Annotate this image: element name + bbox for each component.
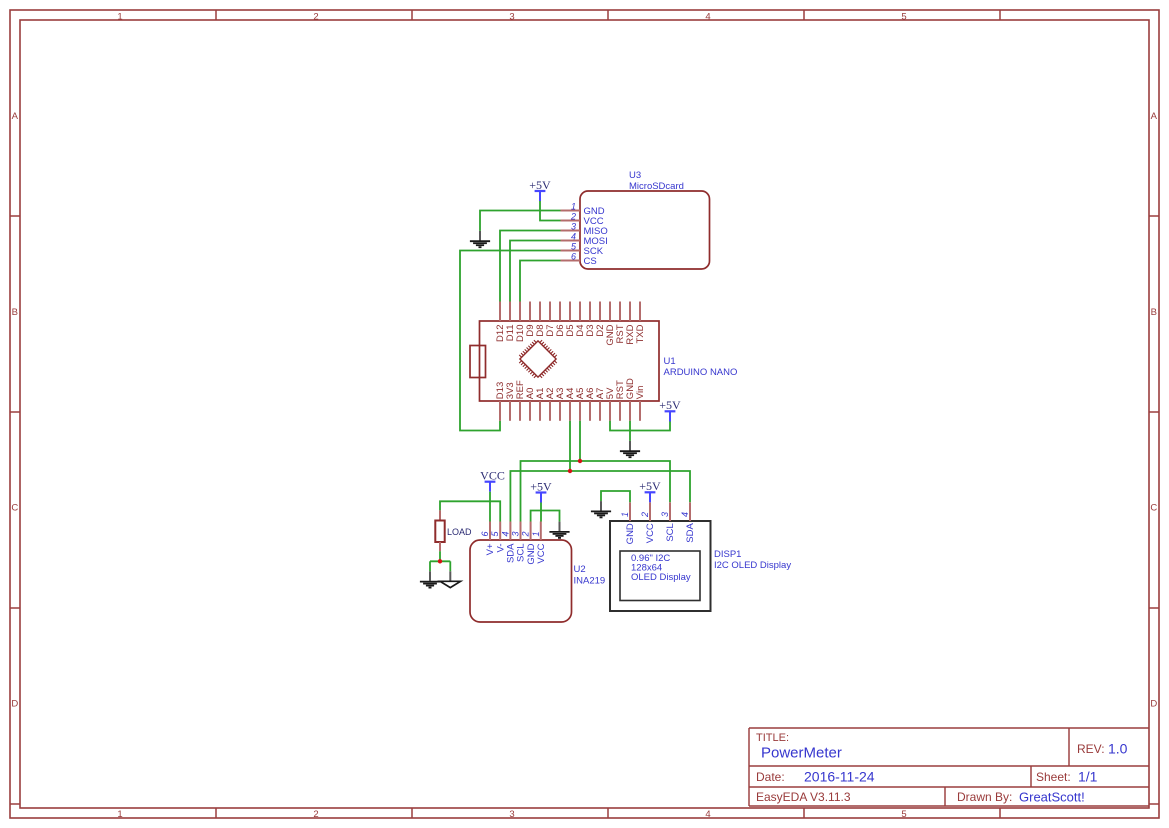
svg-text:3: 3 <box>511 531 521 536</box>
svg-text:VCC: VCC <box>536 543 547 563</box>
svg-text:VCC: VCC <box>480 469 505 483</box>
svg-text:EasyEDA V3.11.3: EasyEDA V3.11.3 <box>756 790 851 804</box>
svg-text:3: 3 <box>660 512 670 517</box>
svg-text:Drawn By:: Drawn By: <box>957 790 1012 804</box>
svg-text:2: 2 <box>640 512 650 518</box>
svg-text:6: 6 <box>480 531 490 536</box>
svg-text:4: 4 <box>571 231 576 241</box>
svg-text:PowerMeter: PowerMeter <box>761 745 842 762</box>
svg-text:U1: U1 <box>664 356 676 367</box>
svg-text:U3: U3 <box>629 170 641 181</box>
svg-text:CS: CS <box>584 256 597 267</box>
svg-text:Date:: Date: <box>756 770 785 784</box>
svg-text:I2C OLED Display: I2C OLED Display <box>714 560 791 571</box>
svg-text:TXD: TXD <box>635 324 646 343</box>
svg-text:C: C <box>11 503 18 514</box>
svg-text:4: 4 <box>680 512 690 517</box>
svg-text:TITLE:: TITLE: <box>756 732 789 744</box>
svg-text:1: 1 <box>571 201 576 211</box>
svg-text:1: 1 <box>117 11 122 22</box>
svg-text:1.0: 1.0 <box>1108 741 1128 757</box>
svg-text:2016-11-24: 2016-11-24 <box>804 769 875 785</box>
svg-text:4: 4 <box>705 809 710 820</box>
svg-text:B: B <box>1151 307 1157 318</box>
svg-text:D: D <box>11 699 18 710</box>
svg-text:+5V: +5V <box>529 178 551 192</box>
svg-text:DISP1: DISP1 <box>714 549 741 560</box>
svg-text:1: 1 <box>620 512 630 517</box>
svg-text:INA219: INA219 <box>574 576 606 587</box>
svg-text:Vin: Vin <box>635 386 646 400</box>
svg-text:D: D <box>1150 699 1157 710</box>
svg-text:MicroSDcard: MicroSDcard <box>629 181 684 192</box>
svg-text:C: C <box>1150 503 1157 514</box>
svg-text:ARDUINO NANO: ARDUINO NANO <box>664 367 738 378</box>
svg-text:5: 5 <box>901 809 906 820</box>
svg-text:+5V: +5V <box>639 479 661 493</box>
svg-text:+5V: +5V <box>659 398 681 412</box>
svg-text:SCL: SCL <box>665 523 676 541</box>
svg-text:A: A <box>12 111 19 122</box>
svg-text:B: B <box>12 307 18 318</box>
svg-text:3: 3 <box>509 809 514 820</box>
svg-text:1: 1 <box>531 531 541 536</box>
svg-text:+5V: +5V <box>530 479 552 493</box>
svg-text:OLED Display: OLED Display <box>631 572 691 583</box>
svg-text:2: 2 <box>521 531 531 537</box>
svg-text:4: 4 <box>500 531 510 536</box>
svg-text:2: 2 <box>313 11 318 22</box>
svg-text:1: 1 <box>117 809 122 820</box>
svg-text:VCC: VCC <box>645 523 656 543</box>
svg-text:U2: U2 <box>574 564 586 575</box>
svg-text:2: 2 <box>570 211 576 221</box>
svg-text:Sheet:: Sheet: <box>1036 770 1071 784</box>
svg-text:GND: GND <box>625 523 636 544</box>
svg-text:A: A <box>1151 111 1158 122</box>
svg-text:6: 6 <box>571 251 576 261</box>
svg-text:REV:: REV: <box>1077 742 1105 756</box>
svg-text:LOAD: LOAD <box>447 527 472 537</box>
svg-text:5: 5 <box>901 11 906 22</box>
svg-text:4: 4 <box>705 11 710 22</box>
svg-text:3: 3 <box>571 221 576 231</box>
svg-text:GreatScott!: GreatScott! <box>1019 790 1085 805</box>
svg-text:3: 3 <box>509 11 514 22</box>
svg-text:SDA: SDA <box>685 523 696 543</box>
svg-text:2: 2 <box>313 809 318 820</box>
svg-text:1/1: 1/1 <box>1078 769 1098 785</box>
